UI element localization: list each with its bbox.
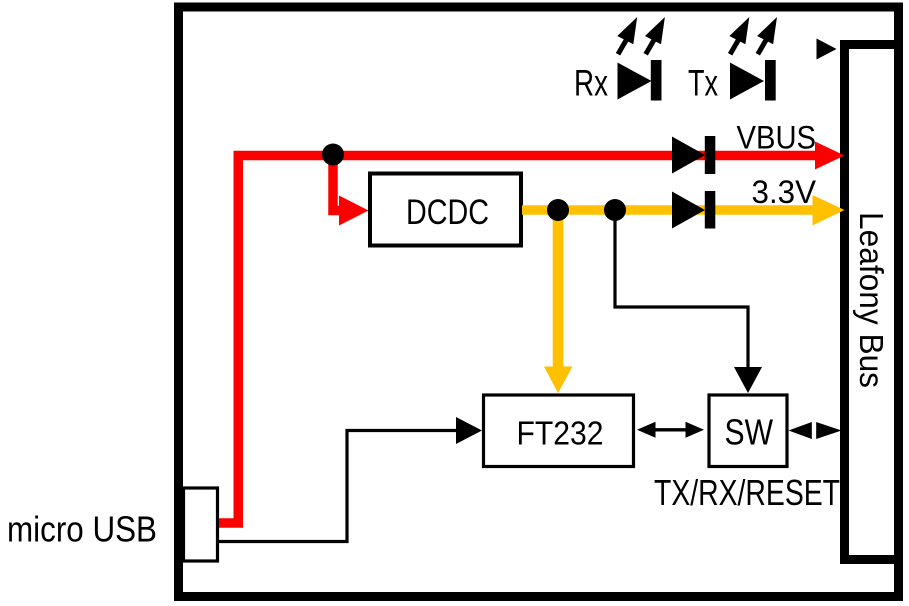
svg-text:3.3V: 3.3V — [752, 174, 817, 210]
svg-text:FT232: FT232 — [517, 414, 604, 451]
svg-text:VBUS: VBUS — [737, 120, 817, 156]
svg-text:Leafony Bus: Leafony Bus — [853, 212, 890, 388]
svg-text:micro USB: micro USB — [7, 509, 157, 550]
svg-text:TX/RX/RESET: TX/RX/RESET — [654, 472, 840, 513]
svg-text:SW: SW — [725, 412, 774, 453]
svg-text:Rx: Rx — [574, 63, 608, 104]
svg-text:DCDC: DCDC — [406, 192, 489, 232]
svg-text:Tx: Tx — [688, 63, 718, 104]
